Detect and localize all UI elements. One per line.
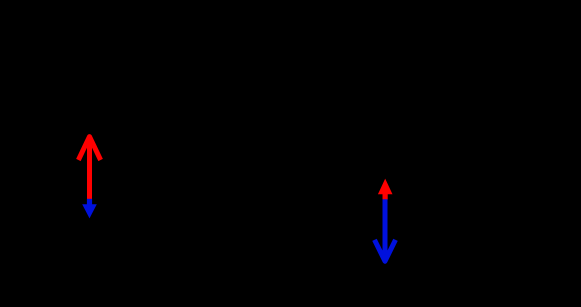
wire middle branch: [354, 60, 356, 250]
current arrow I2 up (red, filled head), middle branch: [378, 179, 393, 200]
resistor R1: [180, 52, 232, 68]
resistor R3: [512, 130, 528, 182]
current arrow I1 up (red, open head), left branch: [78, 137, 100, 200]
node B: [352, 247, 358, 253]
node A: [352, 57, 358, 63]
wire bottom: [60, 249, 520, 251]
wire top: [60, 59, 520, 61]
current arrow I1 down (blue, filled head), left branch: [82, 199, 97, 219]
resistor R2: [347, 130, 363, 182]
wire left: [59, 60, 61, 250]
battery V1: [45, 140, 75, 152]
wire right: [519, 60, 521, 250]
current arrow I2 down (blue, open head), middle branch: [375, 199, 396, 261]
